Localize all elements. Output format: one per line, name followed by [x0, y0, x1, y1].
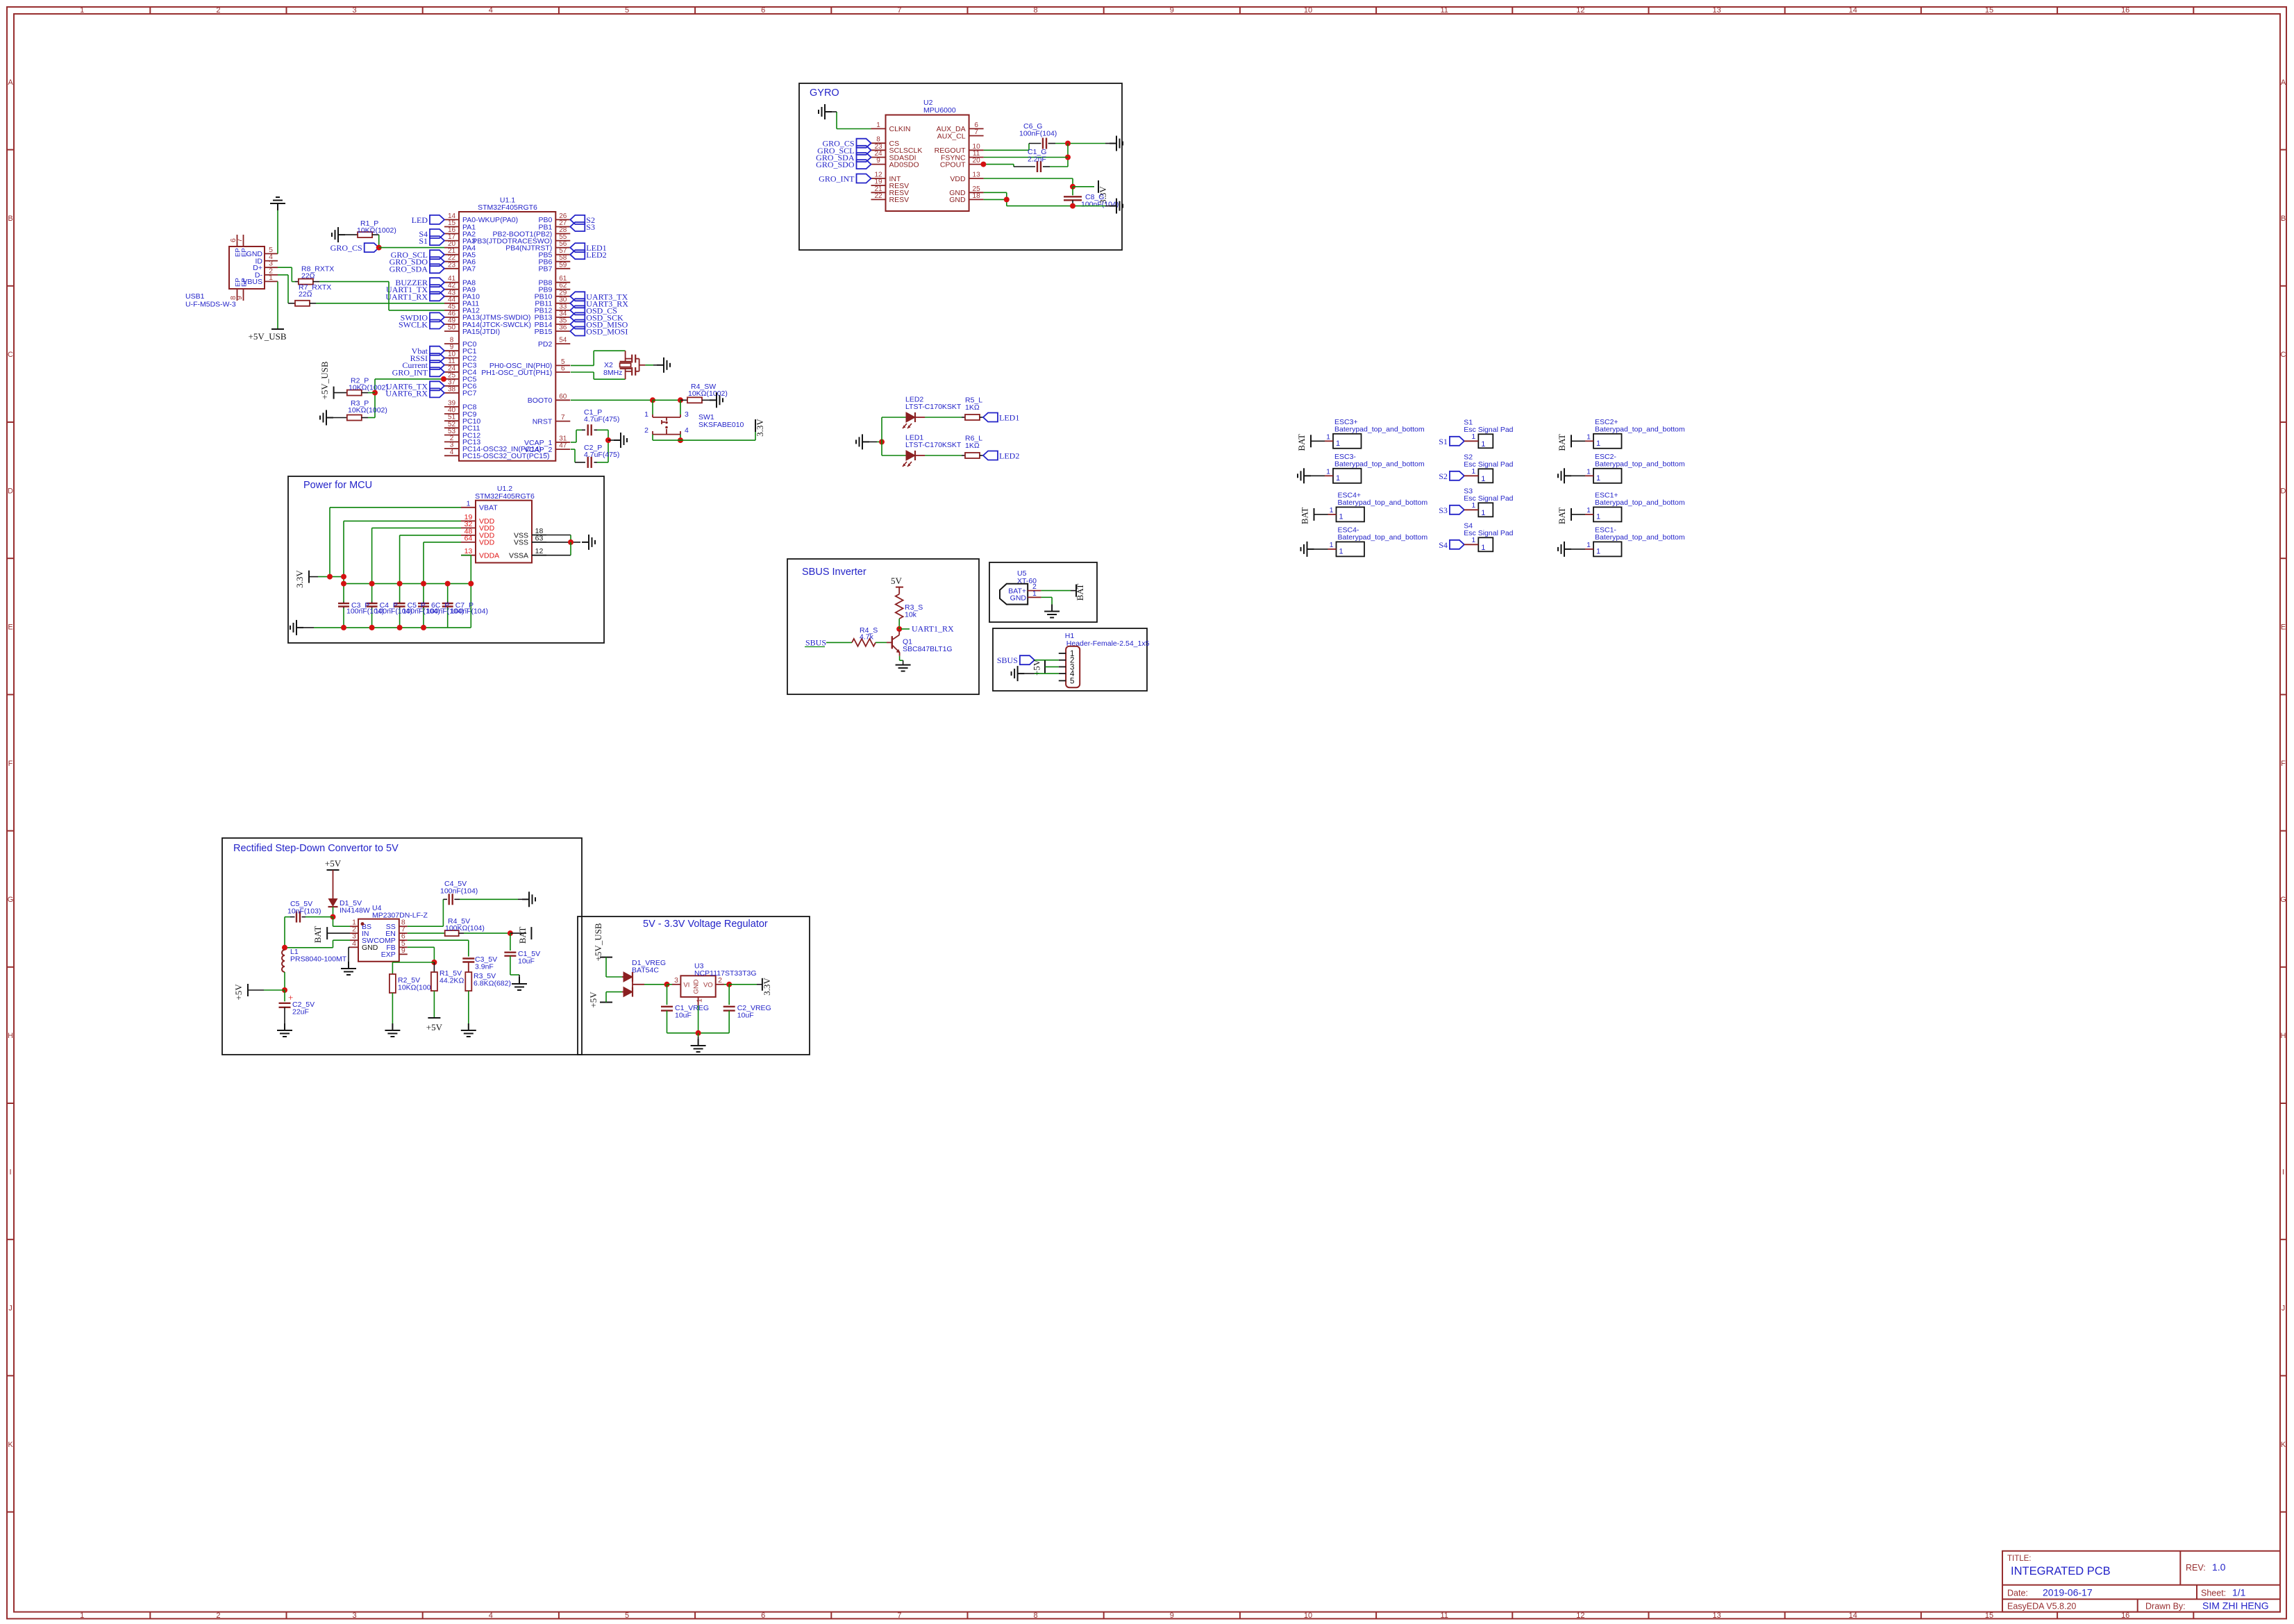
- svg-text:4: 4: [352, 939, 356, 948]
- svg-text:100nF(104): 100nF(104): [1019, 130, 1057, 138]
- svg-text:4.7uF(475): 4.7uF(475): [584, 415, 619, 424]
- svg-text:22uF: 22uF: [292, 1008, 309, 1016]
- svg-text:1: 1: [269, 274, 273, 282]
- svg-text:Date:: Date:: [2007, 1589, 2028, 1598]
- svg-text:LTST-C170KSKT: LTST-C170KSKT: [905, 403, 962, 411]
- svg-text:TITLE:: TITLE:: [2007, 1555, 2032, 1563]
- svg-text:PA15(JTDI): PA15(JTDI): [462, 328, 500, 336]
- svg-text:7: 7: [974, 128, 978, 136]
- svg-text:K: K: [8, 1441, 13, 1449]
- svg-text:1: 1: [1596, 440, 1600, 448]
- svg-text:SBC847BLT1G: SBC847BLT1G: [903, 645, 953, 653]
- svg-text:11: 11: [1440, 6, 1448, 15]
- svg-text:PA7: PA7: [462, 265, 476, 274]
- svg-text:2: 2: [644, 426, 648, 435]
- svg-text:38: 38: [448, 385, 456, 393]
- svg-text:1: 1: [1481, 509, 1485, 517]
- svg-text:I: I: [9, 1168, 11, 1176]
- svg-text:3: 3: [685, 410, 689, 419]
- svg-text:14: 14: [1849, 1612, 1857, 1620]
- svg-text:BAT: BAT: [1296, 434, 1307, 451]
- svg-text:AUX_CL: AUX_CL: [937, 132, 966, 140]
- svg-text:G: G: [8, 896, 14, 904]
- svg-text:2019-06-17: 2019-06-17: [2043, 1587, 2093, 1598]
- svg-text:VSSA: VSSA: [509, 552, 528, 560]
- svg-text:PH1-OSC_OUT(PH1): PH1-OSC_OUT(PH1): [481, 369, 552, 377]
- svg-text:10KΩ(1002): 10KΩ(1002): [349, 383, 388, 392]
- svg-text:H: H: [2281, 1032, 2286, 1040]
- svg-text:15: 15: [1985, 6, 1993, 15]
- svg-text:GRO_INT: GRO_INT: [392, 367, 428, 377]
- svg-text:18: 18: [973, 192, 981, 200]
- svg-text:CPOUT: CPOUT: [940, 160, 966, 169]
- svg-text:3: 3: [353, 1612, 357, 1620]
- svg-text:VSS: VSS: [514, 539, 528, 547]
- svg-text:C: C: [8, 351, 13, 359]
- svg-text:LED1: LED1: [999, 413, 1019, 423]
- svg-text:REV:: REV:: [2186, 1563, 2206, 1573]
- svg-text:5: 5: [625, 1612, 629, 1620]
- svg-text:1: 1: [1471, 501, 1475, 510]
- svg-text:5: 5: [625, 6, 629, 15]
- svg-text:1: 1: [1330, 506, 1334, 514]
- svg-text:1: 1: [80, 6, 84, 15]
- svg-text:+5V: +5V: [426, 1022, 443, 1032]
- svg-text:J: J: [8, 1305, 12, 1313]
- svg-text:13: 13: [1712, 6, 1720, 15]
- svg-text:12: 12: [1576, 6, 1584, 15]
- svg-text:2: 2: [216, 6, 220, 15]
- svg-text:6: 6: [761, 6, 765, 15]
- svg-text:1: 1: [1586, 433, 1591, 441]
- svg-text:10: 10: [1304, 1612, 1312, 1620]
- svg-text:C: C: [2281, 351, 2286, 359]
- svg-text:1: 1: [1330, 541, 1334, 549]
- svg-text:1: 1: [1481, 440, 1485, 449]
- svg-text:1: 1: [1481, 475, 1485, 483]
- svg-text:2.2nF: 2.2nF: [1028, 156, 1046, 164]
- svg-text:4: 4: [489, 6, 493, 15]
- svg-text:64: 64: [464, 534, 473, 542]
- svg-text:STM32F405RGT6: STM32F405RGT6: [478, 203, 537, 212]
- svg-text:9: 9: [401, 946, 405, 955]
- svg-text:EasyEDA V5.8.20: EasyEDA V5.8.20: [2007, 1602, 2076, 1612]
- svg-text:1: 1: [1586, 506, 1591, 514]
- svg-text:K: K: [2281, 1441, 2286, 1449]
- svg-text:8MHz: 8MHz: [603, 369, 622, 377]
- svg-text:36: 36: [559, 324, 567, 332]
- svg-text:7: 7: [235, 238, 244, 242]
- svg-text:VI: VI: [683, 982, 689, 989]
- svg-text:15: 15: [1985, 1612, 1993, 1620]
- svg-text:LTST-C170KSKT: LTST-C170KSKT: [905, 441, 962, 449]
- svg-text:63: 63: [535, 534, 544, 542]
- svg-text:OSD_MOSI: OSD_MOSI: [586, 327, 628, 337]
- svg-text:S1: S1: [1439, 437, 1448, 446]
- svg-text:1: 1: [1336, 474, 1340, 483]
- svg-text:1: 1: [1336, 440, 1340, 448]
- svg-text:BAT: BAT: [1557, 434, 1567, 451]
- svg-text:1: 1: [1471, 467, 1475, 476]
- svg-text:VDD: VDD: [950, 175, 966, 183]
- svg-text:SBUS: SBUS: [805, 638, 826, 648]
- svg-text:1KΩ: 1KΩ: [965, 442, 980, 450]
- svg-text:S1: S1: [419, 236, 428, 246]
- svg-text:100nF(104): 100nF(104): [1081, 201, 1119, 209]
- svg-text:LED2: LED2: [586, 250, 606, 260]
- svg-text:10: 10: [1304, 6, 1312, 15]
- svg-text:BAT: BAT: [517, 927, 528, 944]
- svg-text:16: 16: [2121, 1612, 2129, 1620]
- svg-text:6: 6: [761, 1612, 765, 1620]
- svg-text:2: 2: [718, 976, 722, 985]
- svg-text:VCAP_2: VCAP_2: [524, 446, 552, 454]
- svg-text:STM32F405RGT6: STM32F405RGT6: [475, 492, 535, 501]
- svg-text:22: 22: [874, 192, 882, 200]
- svg-text:D: D: [2281, 487, 2286, 495]
- svg-text:1: 1: [1596, 547, 1600, 555]
- svg-text:22Ω: 22Ω: [299, 290, 312, 299]
- svg-text:GRO_INT: GRO_INT: [819, 174, 855, 184]
- svg-text:100nF(104): 100nF(104): [440, 887, 478, 896]
- svg-text:D: D: [8, 487, 13, 495]
- svg-text:SKSFABE010: SKSFABE010: [698, 421, 744, 429]
- svg-text:4.7k: 4.7k: [860, 633, 874, 642]
- svg-text:+5V: +5V: [325, 858, 342, 869]
- svg-text:100KΩ(104): 100KΩ(104): [445, 924, 485, 932]
- svg-text:Baterypad_top_and_bottom: Baterypad_top_and_bottom: [1334, 460, 1425, 468]
- svg-text:23: 23: [448, 261, 456, 269]
- svg-text:BAT54C: BAT54C: [632, 966, 659, 975]
- svg-text:1: 1: [1339, 512, 1343, 521]
- svg-text:MP2307DN-LF-Z: MP2307DN-LF-Z: [372, 912, 428, 920]
- svg-text:IN4148W: IN4148W: [340, 907, 370, 915]
- svg-text:13: 13: [1712, 1612, 1720, 1620]
- svg-text:VO: VO: [703, 982, 713, 989]
- svg-text:6.8KΩ(682): 6.8KΩ(682): [474, 980, 511, 988]
- svg-text:1: 1: [1596, 474, 1600, 483]
- svg-text:+5V: +5V: [588, 991, 598, 1008]
- svg-text:GND: GND: [693, 979, 701, 994]
- svg-text:1: 1: [1471, 433, 1475, 441]
- svg-text:10KΩ(1002): 10KΩ(1002): [688, 390, 728, 398]
- svg-text:7: 7: [561, 414, 565, 421]
- svg-text:CLKIN: CLKIN: [889, 125, 911, 133]
- svg-text:1: 1: [644, 410, 648, 419]
- svg-text:NRST: NRST: [533, 417, 553, 426]
- svg-text:1: 1: [467, 499, 471, 508]
- svg-text:E: E: [2281, 623, 2286, 632]
- svg-text:100nF(104): 100nF(104): [451, 608, 488, 616]
- svg-text:1KΩ: 1KΩ: [965, 403, 980, 412]
- svg-text:10KΩ(1002): 10KΩ(1002): [357, 226, 396, 235]
- svg-text:60: 60: [559, 393, 567, 401]
- svg-text:9: 9: [235, 296, 244, 300]
- svg-text:RESV: RESV: [889, 196, 910, 204]
- svg-text:10KΩ(1002): 10KΩ(1002): [348, 406, 387, 415]
- svg-text:3.9nF: 3.9nF: [475, 963, 494, 971]
- svg-text:EP: EP: [240, 278, 248, 287]
- svg-text:EXP: EXP: [381, 951, 396, 959]
- svg-text:+5V_USB: +5V_USB: [319, 361, 330, 399]
- svg-text:+5V: +5V: [233, 984, 244, 1001]
- svg-text:J: J: [2282, 1305, 2286, 1313]
- svg-text:5: 5: [1070, 677, 1074, 685]
- svg-text:12: 12: [1576, 1612, 1584, 1620]
- svg-text:1: 1: [1596, 512, 1600, 521]
- svg-text:1: 1: [80, 1612, 84, 1620]
- svg-text:S3: S3: [1439, 505, 1448, 515]
- svg-text:9: 9: [1170, 1612, 1174, 1620]
- svg-text:PD2: PD2: [538, 340, 553, 349]
- svg-text:3: 3: [353, 6, 357, 15]
- svg-text:Baterypad_top_and_bottom: Baterypad_top_and_bottom: [1595, 499, 1685, 507]
- svg-text:13: 13: [973, 171, 981, 179]
- svg-text:13: 13: [464, 547, 473, 555]
- svg-text:Baterypad_top_and_bottom: Baterypad_top_and_bottom: [1338, 499, 1428, 507]
- svg-text:GND: GND: [1010, 594, 1027, 602]
- svg-text:4: 4: [450, 449, 454, 456]
- svg-text:10nF(103): 10nF(103): [287, 907, 321, 916]
- svg-text:6: 6: [561, 365, 565, 373]
- svg-text:5V - 3.3V Voltage Regulator: 5V - 3.3V Voltage Regulator: [643, 919, 768, 930]
- svg-text:A: A: [2281, 78, 2286, 87]
- svg-text:UART6_RX: UART6_RX: [385, 388, 428, 398]
- svg-text:F: F: [2281, 760, 2286, 768]
- svg-text:S4: S4: [1439, 540, 1448, 550]
- svg-text:1.0: 1.0: [2212, 1562, 2226, 1573]
- svg-text:1: 1: [1326, 433, 1330, 441]
- svg-text:9: 9: [876, 157, 880, 165]
- svg-text:PB7: PB7: [538, 265, 552, 274]
- svg-text:U-F-M5DS-W-3: U-F-M5DS-W-3: [185, 301, 236, 309]
- svg-text:Baterypad_top_and_bottom: Baterypad_top_and_bottom: [1338, 533, 1428, 542]
- svg-text:GYRO: GYRO: [810, 87, 839, 99]
- svg-text:50: 50: [448, 324, 456, 332]
- svg-text:BOOT0: BOOT0: [528, 396, 553, 405]
- svg-text:G: G: [2280, 896, 2286, 904]
- svg-text:1: 1: [696, 998, 704, 1003]
- svg-text:E: E: [8, 623, 12, 632]
- svg-text:+5V_USB: +5V_USB: [248, 331, 286, 342]
- svg-text:Baterypad_top_and_bottom: Baterypad_top_and_bottom: [1334, 425, 1425, 433]
- svg-text:1/1: 1/1: [2232, 1587, 2246, 1598]
- svg-text:+5V_USB: +5V_USB: [593, 923, 603, 961]
- svg-text:PC7: PC7: [462, 390, 477, 398]
- svg-text:GRO_SDA: GRO_SDA: [390, 264, 428, 274]
- svg-text:10uF: 10uF: [518, 957, 535, 966]
- svg-text:UART1_RX: UART1_RX: [385, 292, 428, 301]
- svg-text:SBUS Inverter: SBUS Inverter: [802, 567, 866, 578]
- svg-text:Drawn By:: Drawn By:: [2145, 1602, 2186, 1612]
- svg-text:3: 3: [674, 976, 678, 985]
- svg-text:11: 11: [1440, 1612, 1448, 1620]
- svg-text:9: 9: [1170, 6, 1174, 15]
- svg-text:8: 8: [1034, 1612, 1038, 1620]
- svg-text:7: 7: [897, 1612, 901, 1620]
- svg-text:4: 4: [685, 426, 689, 435]
- svg-text:F: F: [8, 760, 13, 768]
- svg-text:5V: 5V: [891, 576, 903, 586]
- svg-text:1: 1: [1586, 541, 1591, 549]
- svg-text:7: 7: [897, 6, 901, 15]
- svg-text:VDDA: VDDA: [479, 552, 499, 560]
- svg-text:B: B: [2281, 215, 2286, 223]
- svg-text:14: 14: [1849, 6, 1857, 15]
- svg-text:10uF: 10uF: [737, 1012, 754, 1020]
- svg-text:Baterypad_top_and_bottom: Baterypad_top_and_bottom: [1595, 460, 1685, 468]
- svg-text:20: 20: [973, 157, 981, 165]
- svg-text:A: A: [8, 78, 13, 87]
- svg-text:PB15: PB15: [535, 328, 553, 336]
- svg-text:BAT: BAT: [1075, 584, 1085, 601]
- svg-text:S2: S2: [1439, 471, 1448, 481]
- svg-text:BAT: BAT: [312, 926, 323, 944]
- svg-text:1: 1: [876, 122, 880, 129]
- svg-text:10k: 10k: [905, 611, 917, 619]
- svg-text:SWCLK: SWCLK: [399, 320, 428, 330]
- svg-text:EP: EP: [240, 248, 248, 257]
- svg-text:59: 59: [559, 261, 567, 269]
- svg-text:1: 1: [1586, 467, 1591, 476]
- svg-text:SBUS: SBUS: [997, 655, 1018, 665]
- svg-text:INTEGRATED PCB: INTEGRATED PCB: [2011, 1565, 2111, 1577]
- svg-text:SIM ZHI HENG: SIM ZHI HENG: [2202, 1600, 2269, 1612]
- svg-text:VDD: VDD: [479, 539, 495, 547]
- svg-text:4.7uF(475): 4.7uF(475): [584, 451, 619, 459]
- svg-text:S3: S3: [586, 222, 595, 232]
- svg-text:USB1: USB1: [185, 292, 205, 301]
- svg-text:3.3V: 3.3V: [762, 978, 772, 996]
- svg-text:PRS8040-100MT: PRS8040-100MT: [290, 955, 347, 964]
- svg-text:16: 16: [2121, 6, 2129, 15]
- svg-text:10uF: 10uF: [675, 1012, 692, 1020]
- svg-text:2: 2: [216, 1612, 220, 1620]
- svg-text:B: B: [8, 215, 12, 223]
- svg-text:GRO_SDO: GRO_SDO: [816, 160, 855, 169]
- svg-text:MPU6000: MPU6000: [923, 106, 956, 115]
- svg-text:3.3V: 3.3V: [755, 419, 765, 437]
- svg-text:8: 8: [1034, 6, 1038, 15]
- svg-text:12: 12: [535, 547, 544, 555]
- svg-text:Baterypad_top_and_bottom: Baterypad_top_and_bottom: [1595, 533, 1685, 542]
- svg-text:Sheet:: Sheet:: [2201, 1589, 2226, 1598]
- svg-text:1: 1: [1471, 536, 1475, 544]
- svg-text:NCP1117ST33T3G: NCP1117ST33T3G: [694, 969, 757, 978]
- svg-text:H: H: [8, 1032, 13, 1040]
- svg-text:LED2: LED2: [999, 451, 1019, 461]
- svg-text:54: 54: [559, 337, 567, 344]
- svg-text:Rectified Step-Down Convertor: Rectified Step-Down Convertor to 5V: [233, 843, 399, 854]
- svg-text:22Ω: 22Ω: [301, 271, 315, 280]
- svg-text:GRO_CS: GRO_CS: [330, 243, 362, 253]
- svg-text:I: I: [2282, 1168, 2284, 1176]
- svg-text:1: 1: [1481, 544, 1485, 552]
- svg-text:GND: GND: [949, 196, 966, 204]
- svg-text:BAT: BAT: [1557, 508, 1567, 525]
- svg-text:1: 1: [1339, 547, 1343, 555]
- svg-text:BAT: BAT: [1300, 508, 1310, 525]
- svg-text:AD0SDO: AD0SDO: [889, 160, 919, 169]
- svg-text:3.3V: 3.3V: [294, 570, 305, 588]
- svg-text:47: 47: [559, 442, 567, 450]
- svg-text:4: 4: [489, 1612, 493, 1620]
- svg-text:1: 1: [1326, 467, 1330, 476]
- svg-text:1: 1: [1032, 589, 1037, 598]
- svg-text:Baterypad_top_and_bottom: Baterypad_top_and_bottom: [1595, 425, 1685, 433]
- svg-text:44.2KΩ: 44.2KΩ: [439, 977, 464, 985]
- svg-text:LED: LED: [412, 215, 428, 225]
- svg-text:UART1_RX: UART1_RX: [912, 624, 954, 634]
- svg-text:Power for MCU: Power for MCU: [303, 480, 372, 491]
- svg-text:VBAT: VBAT: [479, 504, 498, 512]
